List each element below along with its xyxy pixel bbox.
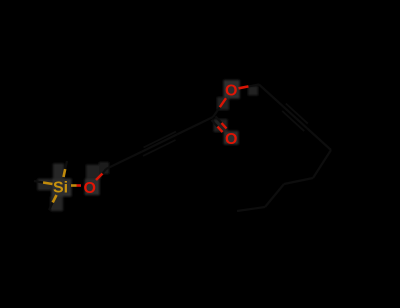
- halo behind silyl ether O label: [85, 179, 100, 195]
- bond O1-C4 (oxygen half): [96, 174, 103, 181]
- halo at CH2 end of O3-C5 bond: [248, 86, 258, 96]
- halo behind Si label: [52, 179, 72, 197]
- silyl ether oxygen O1: [84, 169, 107, 197]
- triple bond C3-C2 lower parallel: [143, 140, 176, 156]
- svg-text:O: O: [84, 180, 96, 197]
- bond C10-C11: [265, 184, 284, 207]
- bond C5-C6: [259, 85, 283, 107]
- halo right of silyl O bond junction: [99, 162, 109, 174]
- bond C1-O3 (oxygen half): [220, 98, 226, 107]
- triple bond C3-C2 center line: [142, 134, 178, 151]
- triple bond C6-C7 center line: [283, 106, 307, 128]
- bond Si-CH3 left (gold half): [43, 183, 53, 185]
- triple bond C6-C7 right parallel: [282, 111, 304, 131]
- bond C4-C3: [106, 152, 142, 169]
- bond C11-C12: [237, 207, 265, 211]
- halo behind ester O label: [224, 80, 240, 99]
- butynoate chain C4-C3-C2-C1 (straight alkyne run): [106, 117, 213, 169]
- bond Si-CH3 up (carbon half): [65, 161, 67, 169]
- trimethylsilyl group Si: [34, 161, 81, 210]
- halo behind carbonyl O label: [224, 131, 239, 145]
- bond Si-O (gold half): [71, 184, 77, 187]
- bond C7-C8: [307, 128, 331, 150]
- double bond C1=O2 line a (oxygen half): [218, 127, 223, 133]
- svg-text:O: O: [225, 131, 237, 148]
- bond O3-C5 (oxygen half): [239, 86, 249, 88]
- double bond C1=O2 line a (carbon half): [212, 120, 218, 127]
- bond C2-C1: [177, 117, 213, 134]
- triple bond C3-C2 upper parallel: [144, 132, 177, 148]
- bond Si-CH3 down (carbon half): [49, 203, 53, 211]
- halo along C1=O2 double bond: [214, 119, 228, 132]
- triple bond C6-C7 left parallel: [286, 104, 308, 124]
- octynyl chain from ester oxygen: [237, 85, 331, 212]
- svg-text:Si: Si: [53, 180, 68, 197]
- double bond C1=O2 line b (oxygen half): [222, 123, 227, 129]
- bond Si-CH3 down (gold half): [53, 195, 57, 203]
- halo above Si along CH3-up bond: [53, 164, 64, 180]
- bond C1-O3 (carbon half): [213, 107, 220, 117]
- halo below-left of ester O along C1-O3 bond: [217, 97, 229, 110]
- bond C8-C9: [313, 150, 331, 178]
- halo up-right of silyl O along O-CH2 bond: [86, 165, 101, 179]
- bond O1-C4 (carbon half): [103, 169, 107, 174]
- halo left of Si along CH3-left bond: [38, 179, 52, 191]
- bond O3-C5 (carbon half): [249, 85, 260, 87]
- halo below Si along CH3-down bond: [51, 197, 64, 212]
- svg-text:O: O: [225, 83, 237, 100]
- bond Si-CH3 up (gold half): [64, 169, 66, 177]
- ester carbonyl C1(=O)O: [212, 83, 238, 149]
- bond Si-CH3 left (carbon half): [34, 181, 43, 183]
- double bond C1=O2 line b (carbon half): [216, 116, 222, 123]
- bond Si-O (oxygen half): [77, 184, 82, 187]
- bond C9-C10: [284, 178, 313, 184]
